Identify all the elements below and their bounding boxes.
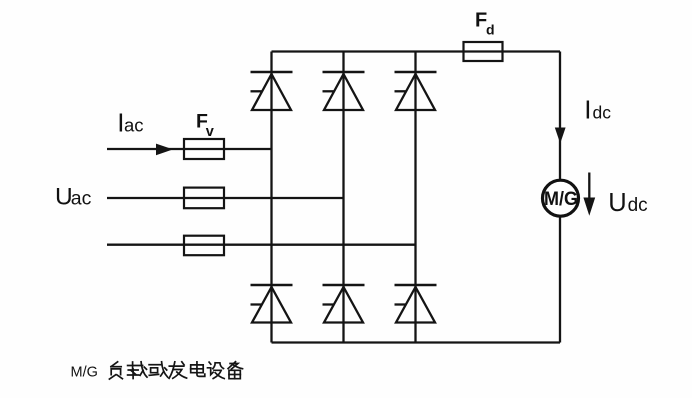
svg-text:dc: dc: [593, 103, 612, 123]
svg-text:M/G: M/G: [71, 365, 98, 381]
svg-text:v: v: [206, 124, 214, 140]
svg-text:U: U: [608, 189, 626, 217]
svg-text:d: d: [486, 22, 495, 38]
svg-text:ac: ac: [71, 188, 92, 210]
svg-text:M/G: M/G: [544, 189, 578, 210]
svg-text:dc: dc: [628, 195, 648, 216]
svg-text:I: I: [584, 95, 591, 125]
svg-text:ac: ac: [124, 114, 144, 135]
